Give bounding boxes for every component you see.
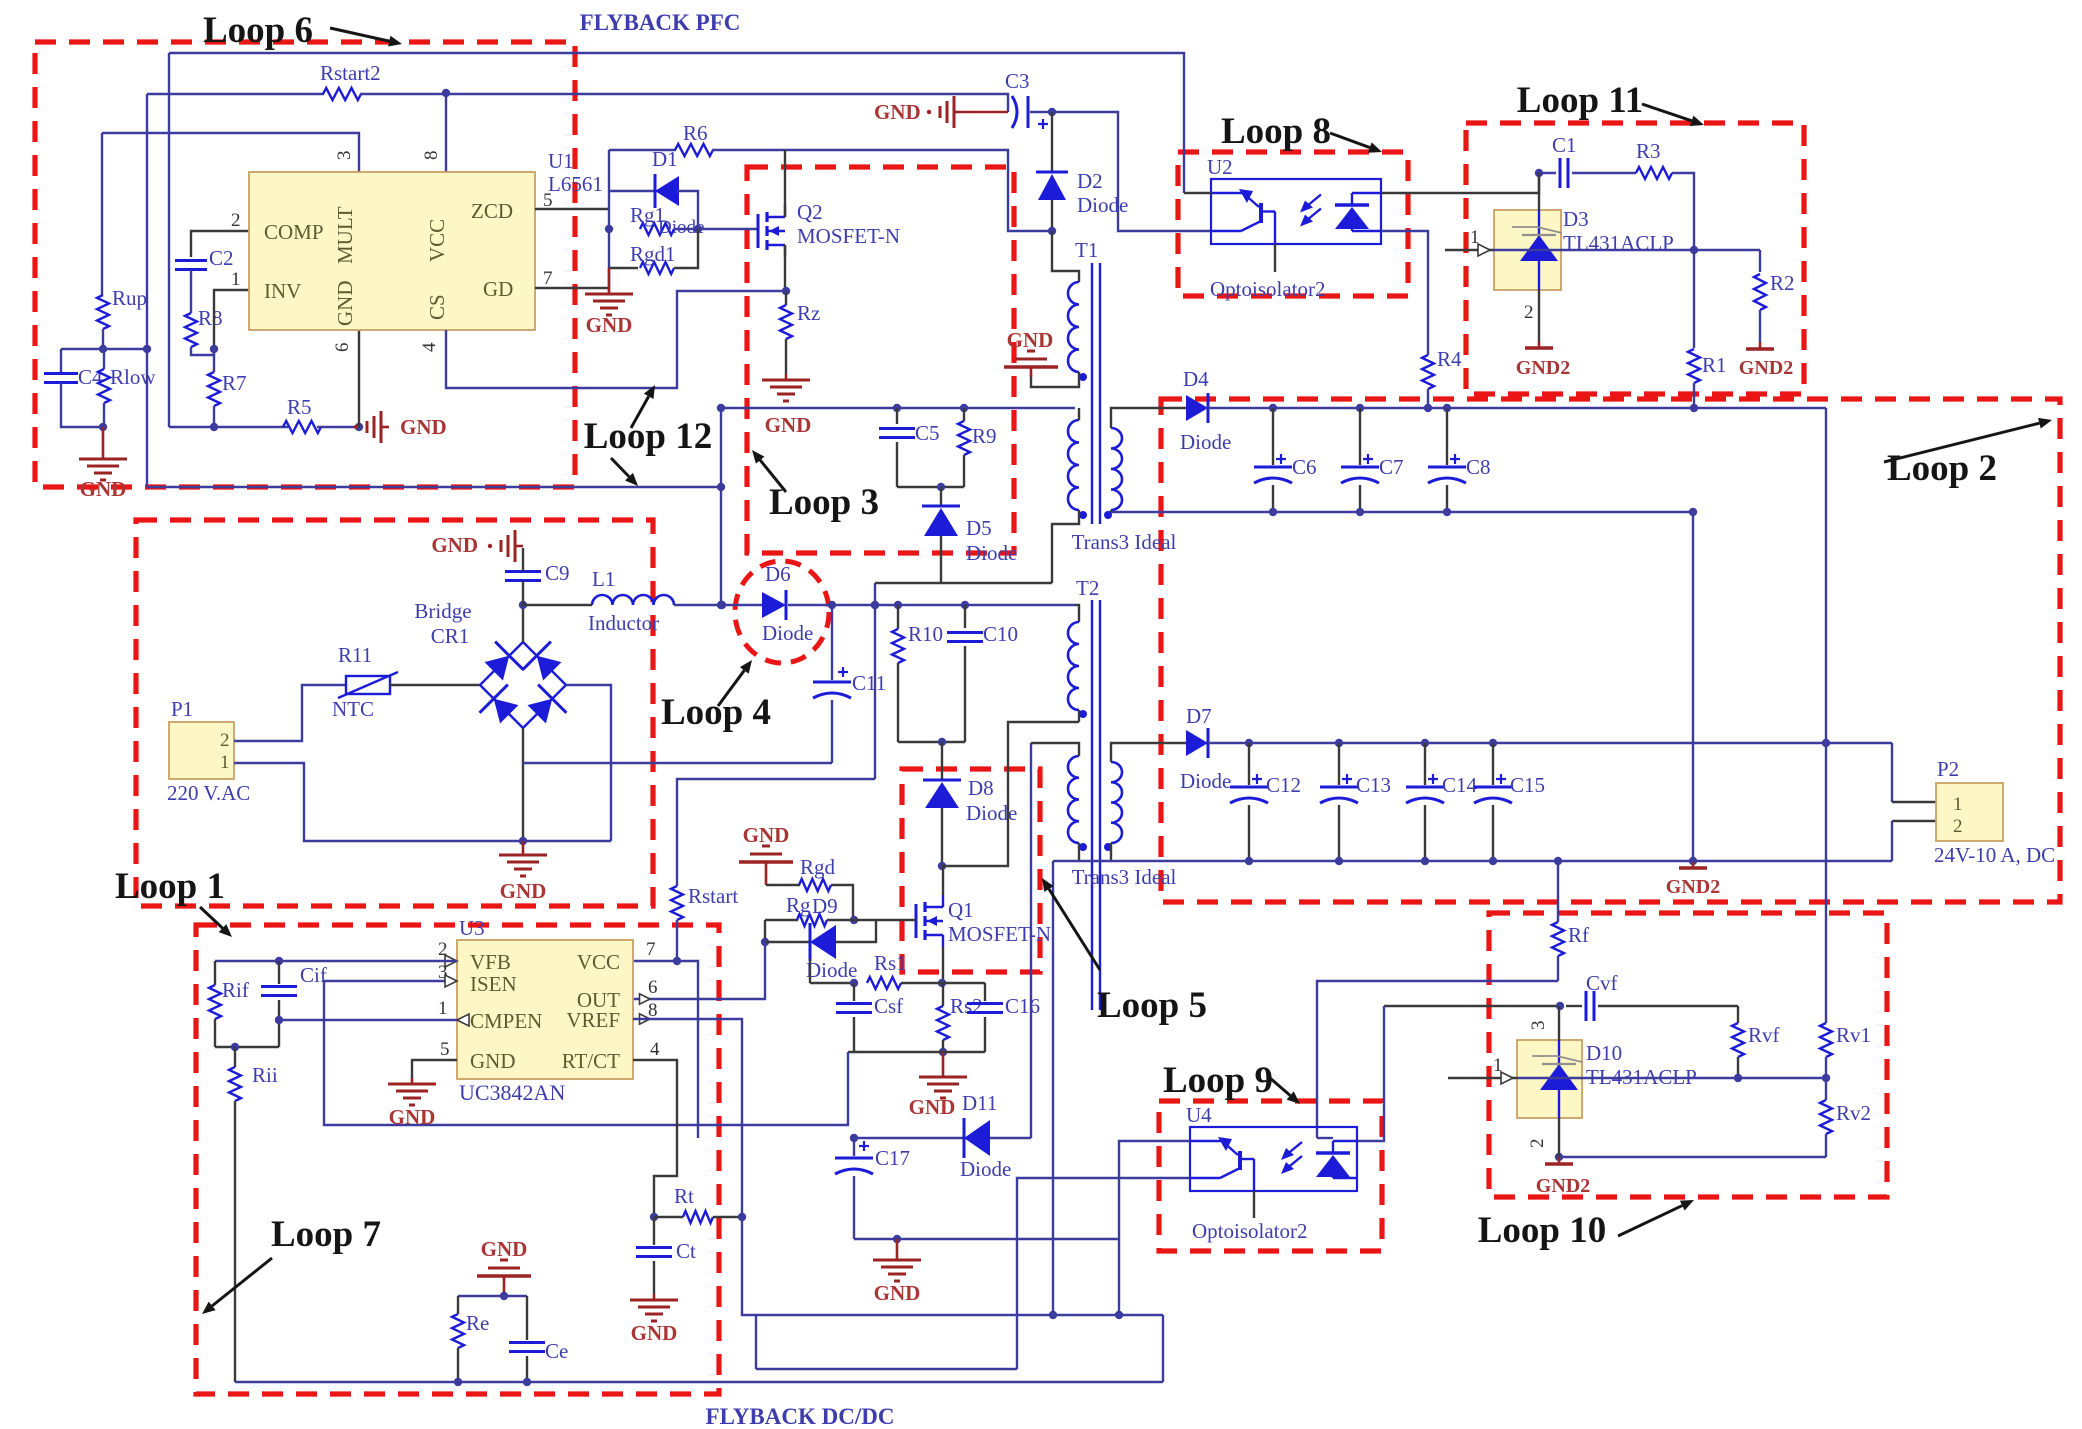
- svg-text:R4: R4: [1437, 347, 1462, 371]
- U3 pin names: [470, 950, 620, 1073]
- svg-text:Diode: Diode: [762, 621, 813, 645]
- resistor Rs1: [810, 951, 943, 989]
- diode D6: [762, 562, 813, 645]
- svg-text:VCC: VCC: [425, 219, 449, 262]
- svg-text:Rv1: Rv1: [1836, 1023, 1871, 1047]
- svg-text:C9: C9: [545, 561, 570, 585]
- svg-text:GND: GND: [765, 413, 812, 437]
- resistor R3: [1636, 139, 1694, 250]
- capacitor C16: [943, 983, 1040, 1052]
- svg-text:Inductor: Inductor: [588, 611, 659, 635]
- svg-text:RT/CT: RT/CT: [562, 1049, 620, 1073]
- capacitor Ce: [509, 1296, 568, 1386]
- resistor Rlow: [98, 349, 156, 431]
- ground GND below Rz: [762, 374, 811, 437]
- capacitor C13: [1320, 743, 1391, 861]
- wire Rv2 bottom row: [1555, 1153, 1826, 1161]
- ground GND2 output: [1666, 861, 1720, 898]
- svg-text:GND: GND: [586, 313, 633, 337]
- svg-text:Loop 5: Loop 5: [1097, 985, 1207, 1026]
- svg-text:Rif: Rif: [222, 978, 249, 1002]
- wire U4 emitter net: [1017, 1178, 1190, 1369]
- svg-text:C13: C13: [1356, 773, 1391, 797]
- svg-text:Rf: Rf: [1568, 923, 1589, 947]
- svg-text:GND: GND: [874, 1281, 921, 1305]
- capacitor C3: [1005, 69, 1048, 129]
- svg-text:Rlow: Rlow: [110, 365, 156, 389]
- U1 reference label: [548, 149, 603, 196]
- resistor Rif: [209, 961, 249, 1047]
- wire ZCD pin5 net: [535, 208, 609, 210]
- resistor Rstart2: [320, 61, 381, 100]
- svg-text:Rz: Rz: [797, 301, 820, 325]
- wire Rup to node: [99, 329, 107, 353]
- svg-text:C11: C11: [852, 671, 886, 695]
- wire L1 to D6: [674, 601, 762, 609]
- resistor Rstart: [671, 884, 738, 961]
- transformer T1 core: [1075, 238, 1100, 524]
- wire node row y349: [61, 345, 151, 353]
- capacitor C1: [1539, 133, 1636, 188]
- resistor Rgd: [766, 855, 858, 924]
- wire bridge top to C9: [519, 601, 527, 642]
- wire CS pin4 net: [446, 291, 786, 388]
- diode D4: [1180, 367, 1231, 454]
- wire D10 anode stub: [1527, 1118, 1559, 1157]
- svg-text:Re: Re: [466, 1311, 489, 1335]
- pwm controller U3 UC3842AN body: [457, 916, 633, 1105]
- resistor Rg1: [630, 203, 704, 238]
- svg-text:Optoisolator2: Optoisolator2: [1210, 277, 1326, 301]
- wire D2 to T1 primary: [1052, 231, 1079, 282]
- wire x756 link: [755, 1315, 757, 1369]
- label Loop 7: [202, 1214, 381, 1314]
- capacitor C12: [1230, 743, 1301, 861]
- wire node column x609: [605, 150, 613, 291]
- capacitor C7: [1341, 408, 1404, 512]
- ground GND2 below D10: [1536, 1157, 1590, 1197]
- svg-text:2: 2: [1953, 816, 1963, 837]
- wire C9 bottom to L1: [523, 581, 592, 605]
- capacitor C2: [175, 231, 249, 270]
- svg-text:Csf: Csf: [874, 994, 903, 1018]
- wire ISEN net: [324, 981, 848, 1125]
- wire sense bottom rail: [848, 1051, 985, 1053]
- svg-text:4: 4: [650, 1039, 660, 1060]
- svg-text:Rup: Rup: [112, 286, 147, 310]
- svg-text:Loop 3: Loop 3: [769, 482, 879, 523]
- svg-text:GND: GND: [400, 415, 447, 439]
- wire T2 aux top lead: [1031, 743, 1079, 756]
- wire rail y512: [1111, 508, 1697, 516]
- svg-text:R1: R1: [1702, 353, 1727, 377]
- svg-text:MOSFET-N: MOSFET-N: [797, 224, 900, 248]
- svg-text:R5: R5: [287, 395, 312, 419]
- bridge CR1: [414, 599, 566, 728]
- svg-text:6: 6: [332, 343, 353, 353]
- resistor R1: [1688, 250, 1727, 408]
- ground GND above C9: [431, 530, 523, 562]
- svg-text:D8: D8: [968, 776, 994, 800]
- transformer T2 core: [1076, 576, 1100, 1010]
- wire D3 anode stub: [1524, 290, 1539, 341]
- resistor Rf: [1552, 861, 1589, 981]
- svg-text:GND: GND: [874, 100, 921, 124]
- loop 3 boundary (dashed box): [747, 167, 1014, 553]
- wire T2 secondary top lead: [1111, 743, 1186, 762]
- svg-text:VREF: VREF: [566, 1008, 620, 1032]
- svg-text:P1: P1: [171, 697, 193, 721]
- wire U1 pin6 GND stub: [358, 330, 360, 427]
- optoisolator U4: [1186, 1103, 1357, 1243]
- op-amp U1 L6561 body: [249, 172, 535, 330]
- wire sense vertical x1826: [1825, 408, 1827, 1023]
- wire T2 secondary bottom lead: [1110, 843, 1112, 861]
- wire Rstart2 net left: [147, 93, 324, 95]
- label Loop 6: [203, 10, 402, 51]
- svg-text:CR1: CR1: [431, 624, 470, 648]
- wire bridge right leg: [566, 685, 611, 841]
- transformer T1 primary winding: [1068, 282, 1087, 381]
- diode D7: [1180, 704, 1231, 793]
- wire R5 row: [169, 423, 288, 431]
- svg-text:1: 1: [1470, 227, 1480, 248]
- inductor L1: [588, 567, 674, 635]
- svg-text:Rgd1: Rgd1: [630, 242, 676, 266]
- label Loop 9: [1163, 1060, 1300, 1104]
- wire loop7 bottom rail: [235, 1381, 1163, 1383]
- ground GND above Re: [477, 1237, 531, 1286]
- capacitor Csf: [836, 983, 903, 1052]
- capacitor C10: [947, 605, 1018, 742]
- wire top bus to U2: [169, 53, 1184, 193]
- svg-text:GND: GND: [500, 879, 547, 903]
- label Loop 4: [661, 660, 771, 733]
- ground GND below Rgd1: [585, 268, 633, 337]
- svg-text:220 V.AC: 220 V.AC: [167, 781, 250, 805]
- resistor Rz: [780, 291, 820, 374]
- svg-text:GND2: GND2: [1516, 357, 1570, 379]
- wire Re Ce top row: [458, 1286, 527, 1300]
- wire y583 row: [875, 582, 1052, 584]
- svg-text:C4: C4: [78, 365, 103, 389]
- svg-text:GND: GND: [1007, 328, 1054, 352]
- svg-text:GND: GND: [431, 533, 478, 557]
- ground GND bridge: [499, 841, 547, 903]
- svg-text:R9: R9: [972, 424, 997, 448]
- svg-text:Optoisolator2: Optoisolator2: [1192, 1219, 1308, 1243]
- svg-text:GND2: GND2: [1536, 1175, 1590, 1197]
- svg-text:Q2: Q2: [797, 200, 823, 224]
- svg-text:GND: GND: [333, 281, 357, 327]
- wire Q2 drain: [784, 150, 786, 217]
- svg-text:2: 2: [1524, 302, 1534, 323]
- diode D11: [854, 1091, 1031, 1181]
- diode D8: [923, 742, 1017, 870]
- wire OUT net vertical: [633, 942, 765, 999]
- ground GND U3: [388, 1078, 436, 1129]
- thermistor R11 NTC: [332, 643, 398, 721]
- wire y1369 row: [756, 1368, 1017, 1370]
- wire Cvf drop to U4 LED: [1357, 1006, 1384, 1141]
- svg-text:D11: D11: [962, 1091, 997, 1115]
- wire CMPEN row: [275, 1016, 457, 1024]
- loop 2 boundary (dashed box): [1161, 399, 2060, 902]
- transistor Q2 MOSFET-N: [758, 200, 900, 257]
- svg-text:NTC: NTC: [332, 697, 374, 721]
- svg-text:D10: D10: [1586, 1041, 1622, 1065]
- resistor Rv1: [1820, 1023, 1871, 1082]
- transformer T2 secondary winding: [1104, 762, 1122, 851]
- svg-text:Loop 7: Loop 7: [271, 1214, 381, 1255]
- svg-text:Ct: Ct: [676, 1239, 696, 1263]
- svg-text:Trans3 Ideal: Trans3 Ideal: [1072, 530, 1177, 554]
- loop 8 boundary (dashed box): [1178, 152, 1408, 296]
- transformer T1 secondary right winding: [1104, 428, 1122, 519]
- resistor Rt: [654, 1184, 746, 1223]
- capacitor Ct: [636, 1217, 696, 1294]
- wire Q2 source to node: [782, 245, 790, 295]
- svg-text:Rv2: Rv2: [1836, 1101, 1871, 1125]
- title FLYBACK PFC: [580, 10, 741, 35]
- wire VREF net: [633, 1019, 742, 1217]
- svg-text:8: 8: [421, 151, 442, 161]
- svg-text:COMP: COMP: [264, 220, 324, 244]
- label Loop 11: [1517, 80, 1704, 126]
- svg-text:Diode: Diode: [1180, 769, 1231, 793]
- svg-text:CS: CS: [425, 294, 449, 320]
- wire T1 sec left bottom lead: [1052, 510, 1079, 583]
- ground GND sense: [909, 1052, 967, 1119]
- svg-text:Loop 8: Loop 8: [1221, 111, 1331, 152]
- capacitor C5: [879, 408, 940, 487]
- diode D9: [761, 894, 876, 982]
- svg-text:Diode: Diode: [966, 801, 1017, 825]
- wire D6 to T2 primary bus: [788, 601, 1075, 609]
- wire C4 top lead: [60, 349, 62, 372]
- U3 pin numbers: [438, 939, 660, 1060]
- capacitor C8: [1428, 408, 1491, 512]
- svg-text:C1: C1: [1552, 133, 1577, 157]
- resistor Rup: [97, 286, 147, 329]
- wire aux return vertical: [1052, 861, 1054, 1315]
- svg-text:GND: GND: [481, 1237, 528, 1261]
- wire bridge bottom leg: [519, 728, 527, 845]
- wire INV pin1 net: [210, 290, 249, 353]
- wire U4 base stub: [1253, 1191, 1255, 1218]
- wire Rup vertical: [101, 133, 103, 295]
- capacitor C11: [813, 605, 886, 763]
- wire C11 bottom row: [523, 762, 832, 764]
- connector P2: [1892, 743, 2055, 867]
- U3 pin arrows: [445, 955, 650, 1026]
- resistor Rii: [229, 1047, 278, 1382]
- loop 4 boundary (dashed ellipse around D6): [735, 561, 829, 663]
- connector P1: [167, 697, 250, 805]
- wire U4 collector net: [1119, 1141, 1190, 1315]
- svg-text:D3: D3: [1563, 207, 1589, 231]
- label Loop 5: [1042, 878, 1207, 1026]
- wire RT/CT net: [633, 1060, 677, 1221]
- wire D10 ref row: [1448, 1055, 1826, 1084]
- diode D1: [609, 147, 698, 229]
- wire loop6 left vertical: [146, 94, 148, 487]
- svg-text:Rs2: Rs2: [950, 994, 983, 1018]
- wire x721 vertical: [717, 408, 725, 609]
- svg-text:D9: D9: [812, 894, 838, 918]
- capacitor C15: [1474, 743, 1545, 861]
- wire x1163 link: [1162, 1315, 1164, 1382]
- wire U2 out top to C1 row: [1381, 169, 1543, 193]
- svg-text:Rstart: Rstart: [688, 884, 738, 908]
- svg-text:C3: C3: [1005, 69, 1030, 93]
- svg-text:L6561: L6561: [548, 172, 603, 196]
- capacitor C6: [1254, 408, 1317, 512]
- wire R5 to GND node: [317, 423, 363, 431]
- ground GND2 below R2: [1739, 342, 1793, 379]
- wire T1 sec left top lead: [1078, 408, 1080, 420]
- svg-text:Loop 1: Loop 1: [115, 866, 225, 907]
- svg-text:7: 7: [646, 939, 656, 960]
- wire C9 top: [522, 548, 524, 571]
- resistor R9: [958, 408, 997, 487]
- svg-text:VCC: VCC: [577, 950, 620, 974]
- wire gate node to Q2: [674, 225, 758, 233]
- svg-text:R8: R8: [198, 306, 223, 330]
- svg-text:Loop 9: Loop 9: [1163, 1060, 1273, 1101]
- svg-text:Loop 10: Loop 10: [1478, 1210, 1607, 1251]
- svg-text:U2: U2: [1207, 155, 1233, 179]
- wire P1 pin2 to NTC: [234, 685, 346, 741]
- wire NTC to bridge: [390, 684, 480, 686]
- svg-text:FLYBACK PFC: FLYBACK PFC: [580, 10, 741, 35]
- svg-text:U4: U4: [1186, 1103, 1212, 1127]
- wire R6 to Q2 drain net: [712, 150, 1052, 231]
- svg-text:L1: L1: [592, 567, 615, 591]
- wire Rif Cif bottom row: [215, 1043, 279, 1051]
- wire Rf to opto LED: [1317, 981, 1558, 1138]
- transistor Q1 MOSFET-N: [916, 895, 1051, 947]
- svg-text:Rstart2: Rstart2: [320, 61, 381, 85]
- svg-text:Bridge: Bridge: [414, 599, 471, 623]
- wire x1693 vertical to GND2: [1689, 512, 1697, 865]
- transformer T2 aux winding: [1068, 756, 1087, 851]
- svg-text:5: 5: [440, 1039, 450, 1060]
- svg-text:GND2: GND2: [1739, 357, 1793, 379]
- svg-text:Ce: Ce: [545, 1339, 568, 1363]
- svg-text:3: 3: [1528, 1021, 1549, 1031]
- svg-text:CMPEN: CMPEN: [470, 1009, 542, 1033]
- wire T1 sec right bottom lead: [1110, 510, 1112, 512]
- svg-text:1: 1: [1493, 1055, 1503, 1076]
- svg-text:C6: C6: [1292, 455, 1317, 479]
- svg-text:2: 2: [231, 210, 241, 231]
- loop 1 boundary (dashed box): [136, 520, 653, 906]
- wire bus408 right: [1208, 404, 1826, 412]
- wire VFB row: [215, 957, 457, 965]
- wire U3 GND pin5: [412, 1060, 457, 1078]
- capacitor Cif: [261, 961, 327, 1047]
- svg-text:INV: INV: [264, 279, 301, 303]
- svg-text:GND: GND: [743, 823, 790, 847]
- svg-text:GD: GD: [483, 277, 513, 301]
- label Loop 1: [115, 866, 232, 937]
- resistor Rs2: [937, 983, 983, 1056]
- svg-text:GND: GND: [80, 477, 127, 501]
- resistor Rg: [765, 893, 916, 926]
- wire C17 bottom row: [854, 1235, 1119, 1243]
- wire D3 ref row: [1445, 227, 1760, 256]
- svg-text:ZCD: ZCD: [471, 199, 513, 223]
- svg-text:C15: C15: [1510, 773, 1545, 797]
- wire U2 collector in: [1184, 192, 1211, 194]
- svg-text:Q1: Q1: [948, 898, 974, 922]
- T2 label Trans3 Ideal: [1072, 865, 1177, 889]
- svg-text:Trans3 Ideal: Trans3 Ideal: [1072, 865, 1177, 889]
- svg-text:FLYBACK DC/DC: FLYBACK DC/DC: [706, 1404, 895, 1429]
- svg-text:GND2: GND2: [1666, 876, 1720, 898]
- svg-text:Rgd: Rgd: [800, 855, 836, 879]
- diode D5: [922, 487, 1017, 583]
- svg-text:2: 2: [220, 730, 230, 751]
- transformer T1 secondary left winding: [1068, 420, 1087, 519]
- svg-text:C14: C14: [1442, 773, 1478, 797]
- U1 pin numbers: [231, 151, 553, 353]
- svg-text:C8: C8: [1466, 455, 1491, 479]
- capacitor C4: [44, 365, 103, 389]
- ground GND at T1 primary: [1004, 328, 1058, 377]
- capacitor C17: [835, 1134, 910, 1239]
- svg-text:VFB: VFB: [470, 950, 511, 974]
- resistor R4: [1422, 347, 1462, 408]
- svg-text:Diode: Diode: [960, 1157, 1011, 1181]
- label Loop 10: [1478, 1200, 1694, 1251]
- loop 6 boundary (dashed box): [35, 42, 575, 487]
- loop 7 boundary (dashed box): [196, 925, 719, 1394]
- wire junction to U2 lower pin: [1052, 112, 1211, 231]
- svg-text:D5: D5: [966, 516, 992, 540]
- svg-text:Rvf: Rvf: [1748, 1023, 1780, 1047]
- label Loop 12: [584, 385, 713, 486]
- capacitor C14: [1406, 743, 1478, 861]
- svg-text:C16: C16: [1005, 994, 1040, 1018]
- svg-text:Diode: Diode: [966, 541, 1017, 565]
- loop 9 boundary (dashed box): [1159, 1101, 1382, 1251]
- svg-text:T1: T1: [1075, 238, 1098, 262]
- svg-text:D6: D6: [765, 562, 791, 586]
- svg-text:R3: R3: [1636, 139, 1661, 163]
- wire R10 C10 bottom row: [898, 738, 965, 746]
- wire VCC net from U3: [633, 957, 698, 1138]
- diode D2: [1036, 112, 1128, 235]
- svg-text:Cif: Cif: [300, 963, 327, 987]
- wire T1 sec right top lead: [1111, 408, 1186, 428]
- svg-text:GND: GND: [389, 1105, 436, 1129]
- ground GND at C3: [874, 96, 1008, 128]
- ground GND at C17: [873, 1239, 921, 1305]
- wire MULT net: [102, 133, 359, 172]
- wire C4 bottom lead: [61, 383, 103, 427]
- capacitor Cvf: [1566, 971, 1738, 1021]
- wire T2 aux bottom lead: [1078, 843, 1080, 861]
- wire loop12 bottom net: [147, 483, 725, 491]
- wire U2 out bottom to R4: [1381, 231, 1428, 355]
- svg-text:U1: U1: [548, 149, 574, 173]
- ground GND below Ct: [630, 1294, 678, 1345]
- svg-text:Loop 6: Loop 6: [203, 10, 313, 51]
- svg-text:4: 4: [419, 342, 440, 352]
- resistor R10: [892, 605, 943, 742]
